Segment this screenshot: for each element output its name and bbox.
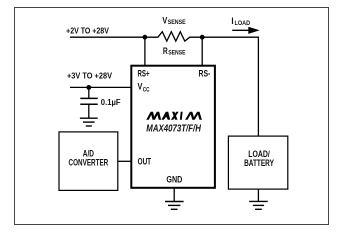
pin label GND xyxy=(166,175,182,185)
node +2V TO +28V label xyxy=(66,25,109,35)
svg-text:SENSE: SENSE xyxy=(168,19,187,26)
wire: +2V supply horizontal segment xyxy=(70,36,145,38)
svg-text:CC: CC xyxy=(143,86,150,93)
resistor RSENSE xyxy=(145,32,202,41)
label VSENSE xyxy=(162,16,186,27)
value label 0.1uF xyxy=(101,97,121,107)
pin label RS+ xyxy=(138,68,150,78)
ground (load return) xyxy=(249,201,268,209)
node +3V TO +28V label xyxy=(67,71,112,81)
junction dot at RS+ node xyxy=(143,35,148,40)
ground (bypass capacitor) xyxy=(80,118,98,126)
svg-text:CONVERTER: CONVERTER xyxy=(69,158,109,168)
pin label RS- xyxy=(199,68,211,78)
block A/D CONVERTER xyxy=(59,132,118,191)
wire: RS- node to load (horizontal then down) xyxy=(202,37,258,136)
wire: capacitor bottom lead xyxy=(88,104,90,118)
svg-text:BATTERY: BATTERY xyxy=(244,158,274,168)
logo MAXIM xyxy=(146,112,202,120)
capacitor C1 0.1uF xyxy=(80,98,97,104)
label RSENSE xyxy=(163,46,186,57)
wire: OUT to A/D converter xyxy=(118,160,131,162)
svg-text:I: I xyxy=(231,16,233,26)
junction dot at VCC bypass node xyxy=(86,85,91,90)
svg-text:MAX4073T/F/H: MAX4073T/F/H xyxy=(146,124,201,135)
wire: RS- pin vertical xyxy=(201,37,203,65)
part number MAX4073T/F/H xyxy=(146,124,201,135)
ground (IC GND) xyxy=(165,202,184,210)
svg-text:LOAD: LOAD xyxy=(235,20,251,27)
pin label OUT xyxy=(138,157,152,167)
svg-text:RS+: RS+ xyxy=(138,68,150,78)
svg-text:OUT: OUT xyxy=(138,157,152,167)
svg-text:RS-: RS- xyxy=(199,68,211,78)
wire: load to ground xyxy=(257,189,259,201)
IC U1 MAX4073T/F/H body xyxy=(131,66,215,188)
svg-text:+2V TO +28V: +2V TO +28V xyxy=(66,25,109,35)
pin label VCC xyxy=(138,81,150,93)
svg-text:GND: GND xyxy=(166,175,182,185)
svg-text:+3V TO +28V: +3V TO +28V xyxy=(67,71,112,81)
svg-text:0.1µF: 0.1µF xyxy=(101,97,121,107)
junction dot at RS- node xyxy=(200,35,205,40)
block LOAD/BATTERY xyxy=(228,136,287,189)
wire: RS+ pin vertical xyxy=(144,37,146,65)
wire: VCC supply horizontal xyxy=(70,86,131,88)
label ILOAD xyxy=(231,16,250,27)
arrow ILOAD current direction xyxy=(232,27,259,34)
svg-text:SENSE: SENSE xyxy=(168,49,186,56)
wire: capacitor top lead xyxy=(88,87,90,98)
wire: GND pin vertical xyxy=(173,188,175,202)
